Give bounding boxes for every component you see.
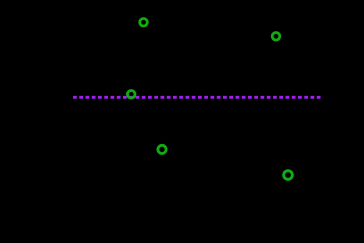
terminal node 1 bbox=[140, 19, 148, 27]
terminal node 4 bbox=[158, 145, 166, 153]
terminal node 5 bbox=[284, 171, 293, 180]
terminal node 3 bbox=[127, 91, 135, 99]
wire: dashed violet cut line bbox=[73, 96, 321, 99]
terminal node 2 bbox=[272, 33, 280, 41]
